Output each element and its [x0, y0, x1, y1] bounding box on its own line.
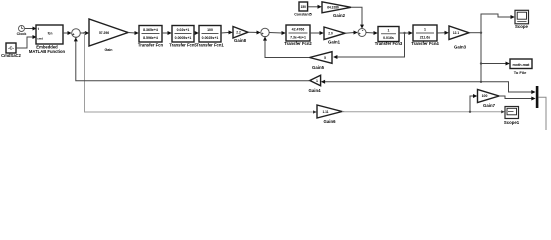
svg-text:8.365e+4: 8.365e+4	[143, 28, 158, 32]
gain Gain3	[449, 26, 469, 40]
svg-text:7.3e-4s+1: 7.3e-4s+1	[290, 35, 306, 39]
wire Gain3 output to node	[469, 32, 481, 34]
wire TF2 to Gain1	[310, 32, 320, 34]
svg-text:mxth.mat: mxth.mat	[513, 63, 531, 67]
wire node down to To File	[480, 33, 482, 64]
svg-text:0.016s: 0.016s	[383, 36, 394, 40]
wire node down to feedback row y82	[480, 64, 482, 82]
wire Constant5 to Gain2	[308, 6, 319, 8]
svg-text:12.1: 12.1	[453, 31, 459, 35]
svg-text:Transfer Fcn5: Transfer Fcn5	[169, 42, 197, 47]
gain Gain6 (right pointing, lower path)	[317, 105, 342, 118]
svg-text:cmd: cmd	[37, 37, 43, 41]
sum S0	[72, 29, 81, 38]
svg-text:Gain: Gain	[105, 48, 113, 52]
wire clock to fcn block	[25, 28, 34, 30]
block Transfer Fcn5 (B)	[172, 26, 194, 43]
scope Scope	[515, 10, 529, 23]
block Transfer Fcn4	[413, 25, 437, 41]
node at y82	[480, 81, 482, 83]
wire node up to Gain7	[470, 96, 474, 112]
svg-text:Gain2: Gain2	[333, 13, 346, 18]
wire S1 bottom input from Gain5	[265, 40, 310, 58]
wire sum S0 output with node	[80, 32, 86, 34]
svg-text:Scope: Scope	[515, 24, 529, 29]
svg-text:57.296: 57.296	[99, 31, 109, 35]
svg-text:Transfer Fcn4: Transfer Fcn4	[411, 41, 439, 46]
wire grey tap down to Gain6	[85, 33, 313, 112]
gain Gain7	[478, 90, 500, 103]
svg-text:100: 100	[207, 28, 213, 32]
svg-text:1: 1	[316, 79, 318, 83]
block Transfer Fcn2	[286, 25, 310, 41]
gain Gain2 (top)	[322, 2, 351, 13]
svg-text:MATLAB Function: MATLAB Function	[29, 49, 66, 54]
node after TF3	[403, 32, 405, 34]
wire node up to Scope	[481, 14, 511, 33]
wire Gain7 to Mux input 2	[499, 96, 532, 99]
node after Gain3	[480, 32, 482, 34]
wire node down to Gain5 input	[337, 33, 405, 57]
wire Gain4 output to sum S0 bottom	[76, 41, 310, 81]
wire TF3 to TF4 with node	[399, 32, 409, 34]
sum S1	[261, 28, 269, 36]
block Transfer Fcn (A)	[139, 26, 162, 43]
wire Mux output down to edge	[538, 97, 546, 130]
svg-text:CmdSaC2: CmdSaC2	[1, 53, 21, 58]
svg-text:0.0005s+1: 0.0005s+1	[175, 36, 192, 40]
svg-text:Gain8: Gain8	[234, 38, 247, 43]
constant CmdSaC2	[6, 43, 16, 53]
svg-text:150: 150	[301, 5, 307, 9]
svg-text:Gain5: Gain5	[312, 65, 325, 70]
svg-text:1: 1	[388, 29, 390, 33]
svg-text:64.3286: 64.3286	[327, 6, 339, 10]
wire TF-C to Gain8	[221, 31, 229, 34]
constant Constant5 (top)	[299, 2, 308, 11]
wire S2 to TF3	[366, 32, 374, 35]
svg-text:Transfer Fcn1: Transfer Fcn1	[196, 42, 224, 47]
wire TF4 to Gain3	[437, 32, 445, 34]
svg-text:Gain6: Gain6	[324, 119, 337, 124]
gain Gain1	[324, 27, 345, 40]
svg-text:2.2: 2.2	[236, 30, 241, 34]
svg-text:42.4766: 42.4766	[292, 28, 305, 32]
wire fcn block to sum S0	[63, 32, 68, 34]
svg-text:0.0025s+1: 0.0025s+1	[202, 36, 219, 40]
svg-text:1: 1	[424, 28, 426, 32]
svg-text:-C-: -C-	[8, 46, 14, 51]
node at To File tap	[480, 62, 482, 64]
scope Scope1	[505, 107, 519, 119]
svg-text:Transfer Fcn3: Transfer Fcn3	[375, 41, 403, 46]
wire Gain8 to sum S1	[248, 31, 257, 33]
svg-text:To File: To File	[514, 70, 527, 75]
svg-text:Clock: Clock	[17, 32, 27, 36]
svg-text:Gain4: Gain4	[309, 88, 322, 93]
svg-text:100: 100	[482, 94, 488, 98]
svg-text:Transfer Fcn: Transfer Fcn	[138, 42, 164, 47]
wire Gain2 down to sum S2 top	[351, 7, 362, 25]
svg-text:5: 5	[324, 56, 326, 60]
wire Gain6 output grey to Scope1	[342, 111, 501, 113]
node on grey wire	[469, 111, 471, 113]
clock Clock	[19, 26, 25, 32]
wire Gain to TF-A	[128, 32, 135, 35]
block Transfer Fcn1 (C)	[199, 26, 221, 43]
svg-text:0.02s+1: 0.02s+1	[177, 28, 190, 32]
wire S1 to TF2	[269, 32, 282, 35]
svg-text:211.6s: 211.6s	[420, 35, 431, 39]
gain Gain8 (small)	[233, 27, 248, 39]
sum S2	[358, 29, 366, 37]
mux Mux	[536, 86, 539, 108]
wire constant to fcn block	[16, 37, 34, 48]
svg-text:Gain7: Gain7	[483, 103, 496, 108]
svg-text:1.11: 1.11	[322, 110, 328, 114]
svg-text:Gain3: Gain3	[454, 44, 467, 49]
svg-text:8.596e+4: 8.596e+4	[143, 36, 158, 40]
block Transfer Fcn3	[378, 27, 399, 42]
svg-text:2.0: 2.0	[328, 31, 333, 35]
svg-text:fcn: fcn	[48, 32, 53, 36]
gain Gain5 (left pointing)	[310, 52, 333, 64]
wire Gain1 to sum S2	[345, 32, 354, 35]
svg-text:Constant5: Constant5	[294, 13, 312, 17]
block U1 Embedded MATLAB Function	[36, 25, 63, 44]
wire TF-B to TF-C	[194, 32, 196, 34]
gain Gain4 (left pointing)	[310, 75, 321, 85]
svg-text:Gain1: Gain1	[328, 39, 341, 44]
svg-text:Scope1: Scope1	[504, 120, 520, 125]
block To File	[510, 59, 532, 69]
node after S0	[83, 32, 85, 34]
wire TF-A to TF-B	[162, 32, 168, 34]
wire y82 right to Mux input 1	[481, 82, 532, 92]
wire y82 left to Gain4	[324, 81, 481, 83]
svg-text:Transfer Fcn2: Transfer Fcn2	[284, 41, 312, 46]
gain Gain (big)	[89, 19, 128, 46]
